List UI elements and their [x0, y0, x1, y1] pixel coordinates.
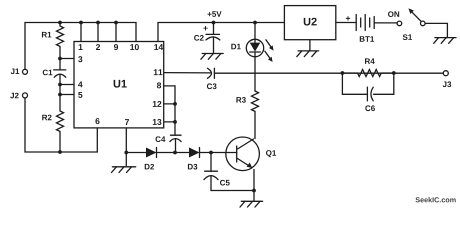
resistor R3 — [252, 91, 259, 111]
connector J3 — [443, 71, 448, 76]
wire pin 2 stub — [97, 23, 99, 42]
node pin1 junction — [79, 21, 83, 25]
LED D1 — [254, 23, 256, 40]
label BT1 plus — [346, 16, 350, 20]
ground below C2 — [202, 53, 223, 55]
label D2 — [145, 164, 154, 170]
node D1 junction — [253, 21, 257, 25]
node R4 left junction — [341, 71, 345, 75]
wire pin 9 stub — [115, 23, 117, 42]
diode D2 — [146, 148, 157, 158]
wire S1 to ground — [425, 23, 447, 37]
node pin5 junction — [58, 93, 62, 97]
wire pin 6 stub — [96, 128, 98, 152]
label ON — [388, 11, 399, 17]
wire battery to S1 — [374, 22, 397, 24]
node C5 junction — [209, 151, 213, 155]
pin 7 — [125, 119, 129, 125]
node pin12 junction — [173, 102, 177, 106]
label C1 — [43, 70, 53, 76]
box U2 — [284, 6, 335, 40]
pin 12 — [153, 101, 162, 107]
connector J1 — [23, 69, 28, 74]
battery BT1 — [355, 15, 357, 31]
watermark SeekIC.com — [415, 197, 455, 202]
pin 13 — [153, 119, 162, 125]
wire pin 11 line to J3 — [164, 72, 210, 74]
resistor R2 — [57, 95, 64, 153]
ground right of S1 — [435, 37, 456, 39]
pin 9 — [114, 44, 118, 50]
label Q1 — [266, 150, 276, 157]
wire D1 to R3 — [254, 57, 256, 91]
resistor R4 — [342, 70, 393, 77]
LED arrows — [266, 40, 271, 47]
wire — [59, 85, 61, 95]
switch S1 — [397, 21, 402, 26]
wire — [175, 152, 189, 154]
wire U2 bottom to ground — [309, 40, 311, 51]
capacitor C5 — [210, 153, 212, 172]
wire U2 to battery — [336, 22, 356, 24]
label J3 — [443, 81, 451, 87]
label +5V — [208, 11, 222, 17]
pin 8 — [157, 82, 161, 88]
node R1 top junction — [58, 21, 62, 25]
label C5 — [220, 180, 230, 186]
label R1 — [42, 32, 51, 38]
capacitor C2 — [213, 23, 215, 35]
node emitter junction — [252, 189, 256, 193]
node R2 bottom junction — [58, 150, 62, 154]
label D3 — [188, 164, 197, 170]
label R4 — [365, 58, 375, 64]
label R3 — [236, 97, 245, 103]
resistor R1 — [57, 23, 64, 59]
label U1 — [114, 80, 127, 88]
ground below Q1 emitter — [253, 191, 255, 202]
pin 5 — [78, 92, 82, 98]
capacitor C4 — [171, 134, 182, 136]
label S1 — [403, 34, 412, 40]
label J2 — [10, 93, 18, 99]
node pin2 junction — [96, 21, 100, 25]
pin 2 — [96, 44, 100, 50]
pin 3 — [78, 56, 82, 62]
label R2 — [42, 115, 51, 121]
node R4 right junction — [392, 71, 396, 75]
ground below U2 — [298, 50, 319, 52]
label D1 — [231, 44, 240, 50]
connector J2 — [23, 93, 28, 98]
wire pin 5 stub — [60, 94, 74, 96]
capacitor C3 — [208, 68, 212, 78]
node pin13 junction — [173, 120, 177, 124]
label C4 — [156, 136, 166, 142]
label C3 — [207, 83, 217, 89]
label J1 — [11, 68, 20, 74]
wire R3 to Q1 collector — [254, 111, 256, 138]
wire +5V rail (pin14 to U2) — [158, 23, 284, 42]
label C6 — [365, 105, 375, 111]
wire pin 1 stub — [80, 23, 82, 42]
node pin9 junction — [114, 21, 118, 25]
wire J2 down to bottom rail — [25, 98, 97, 152]
label U2 — [304, 18, 317, 26]
transistor Q1 — [226, 137, 260, 171]
capacitor C6 parallel branch — [342, 73, 367, 94]
op-amp U1 (IC box) — [74, 42, 164, 128]
ground below pin 7 — [125, 153, 127, 167]
pin 6 — [95, 118, 99, 124]
pin 1 — [79, 44, 83, 50]
pin 10 — [130, 44, 139, 50]
diode D3 — [189, 148, 200, 158]
node C2 junction — [212, 21, 216, 25]
capacitor C1 — [59, 59, 61, 71]
node pin3 junction — [58, 57, 62, 61]
pin 14 — [154, 44, 163, 50]
wire top rail left net (J1,R1,pins 1,2,9,10) — [25, 23, 136, 70]
pin 4 — [78, 81, 83, 87]
label BT1 — [360, 36, 374, 42]
wire pin 7 stub — [125, 128, 127, 153]
wire D2 line — [126, 152, 146, 154]
node D2 line left junction — [124, 151, 128, 155]
node pin4 junction — [58, 83, 62, 87]
label C2 — [194, 35, 204, 41]
node C4 bottom junction — [173, 151, 177, 155]
pin 11 — [154, 69, 163, 75]
wire pin 8/12/13 rail — [164, 86, 175, 135]
wire pin 4 stub — [60, 84, 74, 86]
wire pin 3 stub — [60, 58, 74, 60]
label C2 plus — [203, 26, 207, 30]
